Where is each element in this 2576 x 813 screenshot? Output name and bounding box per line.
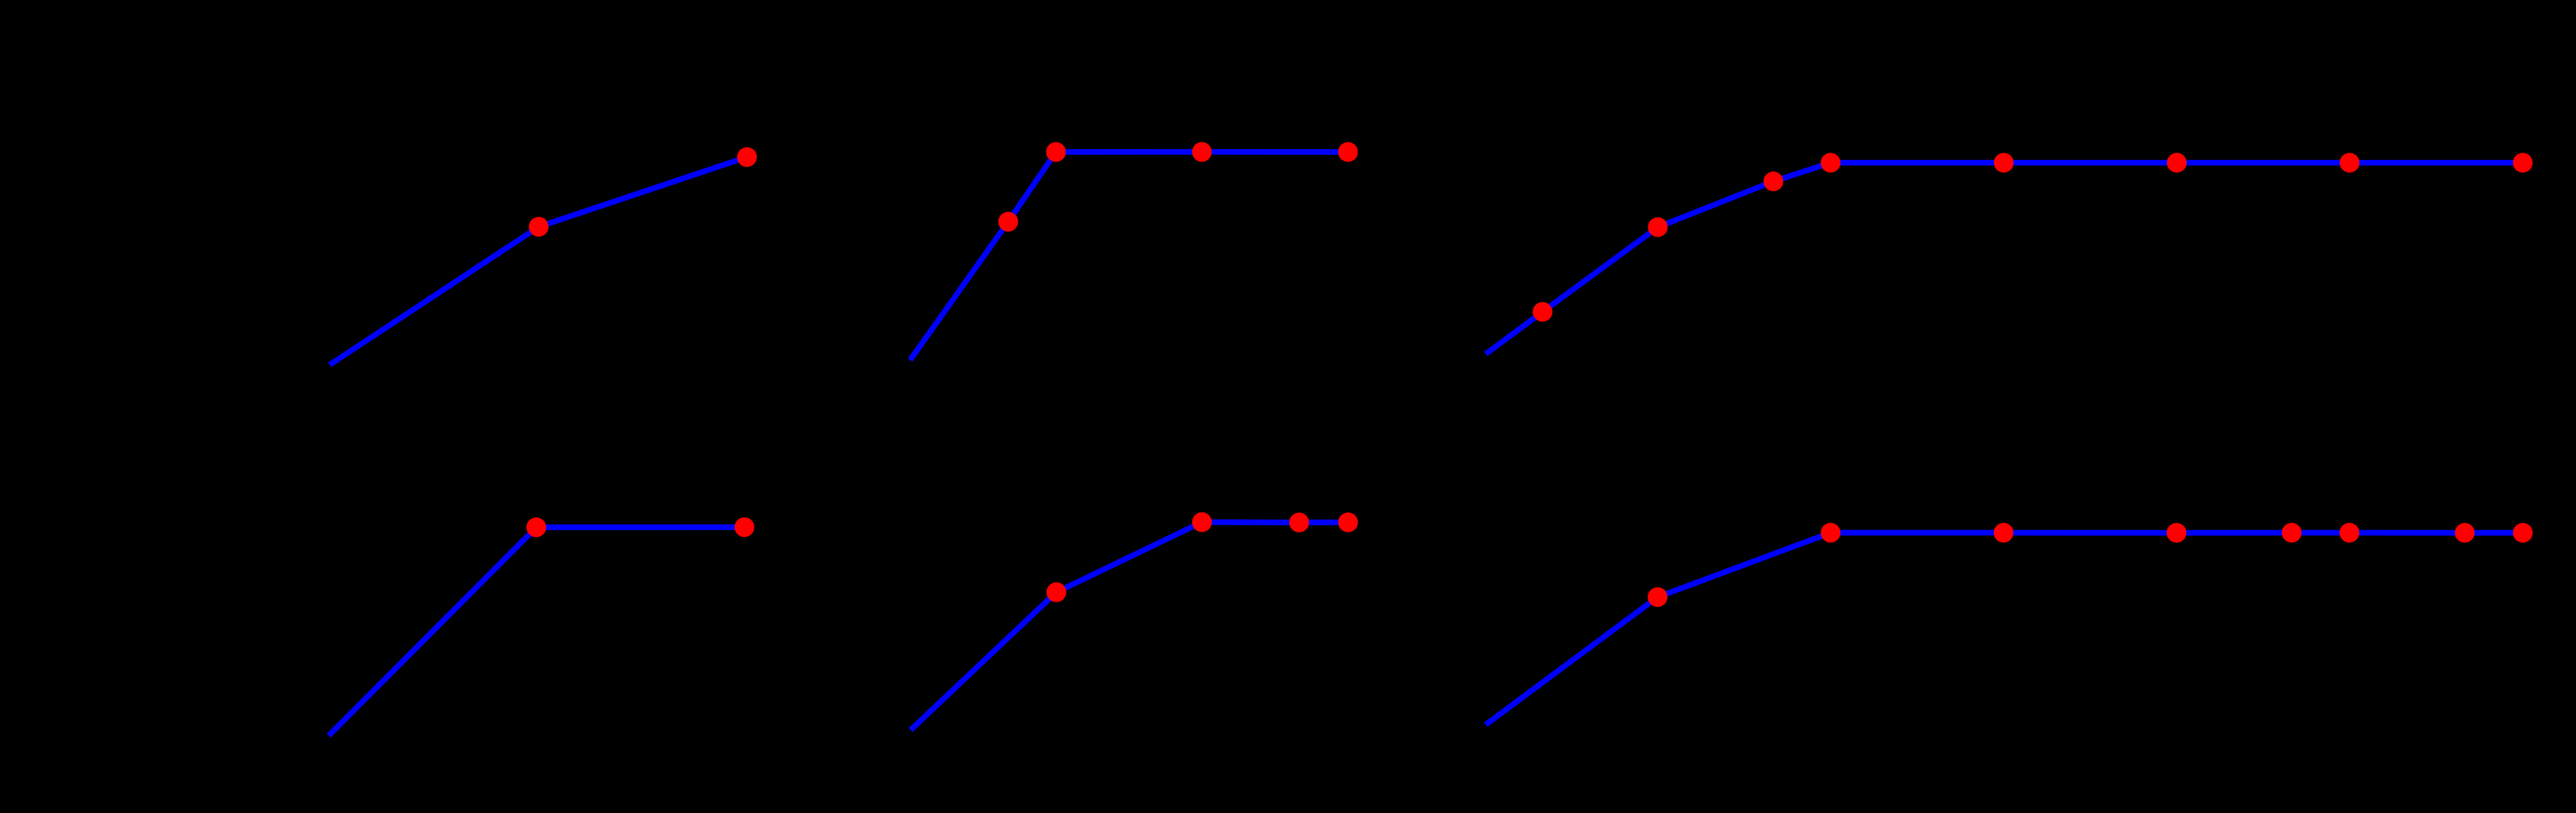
subplot 3 marker 5 — [1994, 153, 2014, 173]
subplot 2 marker 4 — [1338, 142, 1358, 162]
subplot 5 marker 3 — [1289, 512, 1309, 532]
subplot 6 (bottom-right) line — [1485, 533, 2523, 725]
subplot 5 marker 4 — [1338, 512, 1358, 532]
subplot 6 marker 3 — [1993, 523, 2013, 542]
subplot 2 (top-middle) line — [910, 152, 1348, 360]
subplot 5 marker 2 — [1192, 512, 1212, 532]
subplot 3 marker 2 — [1648, 218, 1668, 237]
subplot 6 marker 5 — [2282, 523, 2301, 542]
subplot 3 marker 7 — [2340, 153, 2360, 173]
subplot 1 marker 2 — [737, 147, 757, 167]
subplot 6 marker 4 — [2167, 523, 2187, 543]
subplot 4 (bottom-left) line — [329, 527, 745, 736]
subplot 2 marker 2 — [1046, 142, 1066, 162]
subplot 4 marker 2 — [735, 518, 754, 537]
subplot 3 marker 6 — [2167, 153, 2187, 173]
subplot 5 (bottom-middle) line — [911, 522, 1348, 730]
subplot 6 marker 2 — [1821, 523, 1840, 542]
subplot 6 marker 6 — [2340, 523, 2360, 542]
subplot 3 (top-right) line — [1486, 163, 2523, 354]
subplot 6 marker 8 — [2513, 523, 2532, 543]
subplot 2 marker 1 — [998, 212, 1018, 232]
subplot 5 marker 1 — [1046, 582, 1066, 602]
subplot 3 marker 8 — [2513, 153, 2532, 173]
subplot 3 marker 1 — [1533, 302, 1553, 322]
subplot 3 marker 4 — [1821, 153, 1840, 173]
subplot 1 (top-left) line — [330, 157, 748, 365]
subplot 2 marker 3 — [1192, 142, 1212, 162]
subplot 6 marker 7 — [2455, 523, 2475, 543]
subplot 4 marker 1 — [527, 518, 546, 537]
subplot 3 marker 3 — [1763, 172, 1783, 192]
subplot 6 marker 1 — [1648, 587, 1667, 607]
subplot 1 marker 1 — [529, 217, 549, 237]
